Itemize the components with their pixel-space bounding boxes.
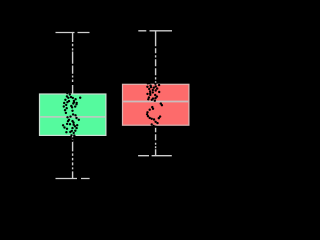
box 2 (red) top whisker cap (138, 30, 172, 32)
box 2 top whisker (dash-dot) (155, 31, 157, 84)
box 1 bottom whisker cap (56, 178, 90, 180)
box 1 (green) top whisker cap (56, 32, 90, 34)
box 2 median line (123, 101, 188, 103)
box 2 bottom whisker cap (138, 155, 172, 157)
data points (jitter) box 1 (62, 92, 82, 142)
box 2 (red) body (123, 84, 189, 125)
box 1 top whisker (dash-dot) (72, 33, 74, 94)
data points (jitter) box 2 (146, 82, 163, 128)
box 1 median line (40, 116, 105, 118)
box 2 bottom whisker (dash-dot) (155, 125, 157, 156)
box 1 (green) body (40, 94, 106, 135)
box 1 bottom whisker (dash-dot) (72, 135, 74, 178)
